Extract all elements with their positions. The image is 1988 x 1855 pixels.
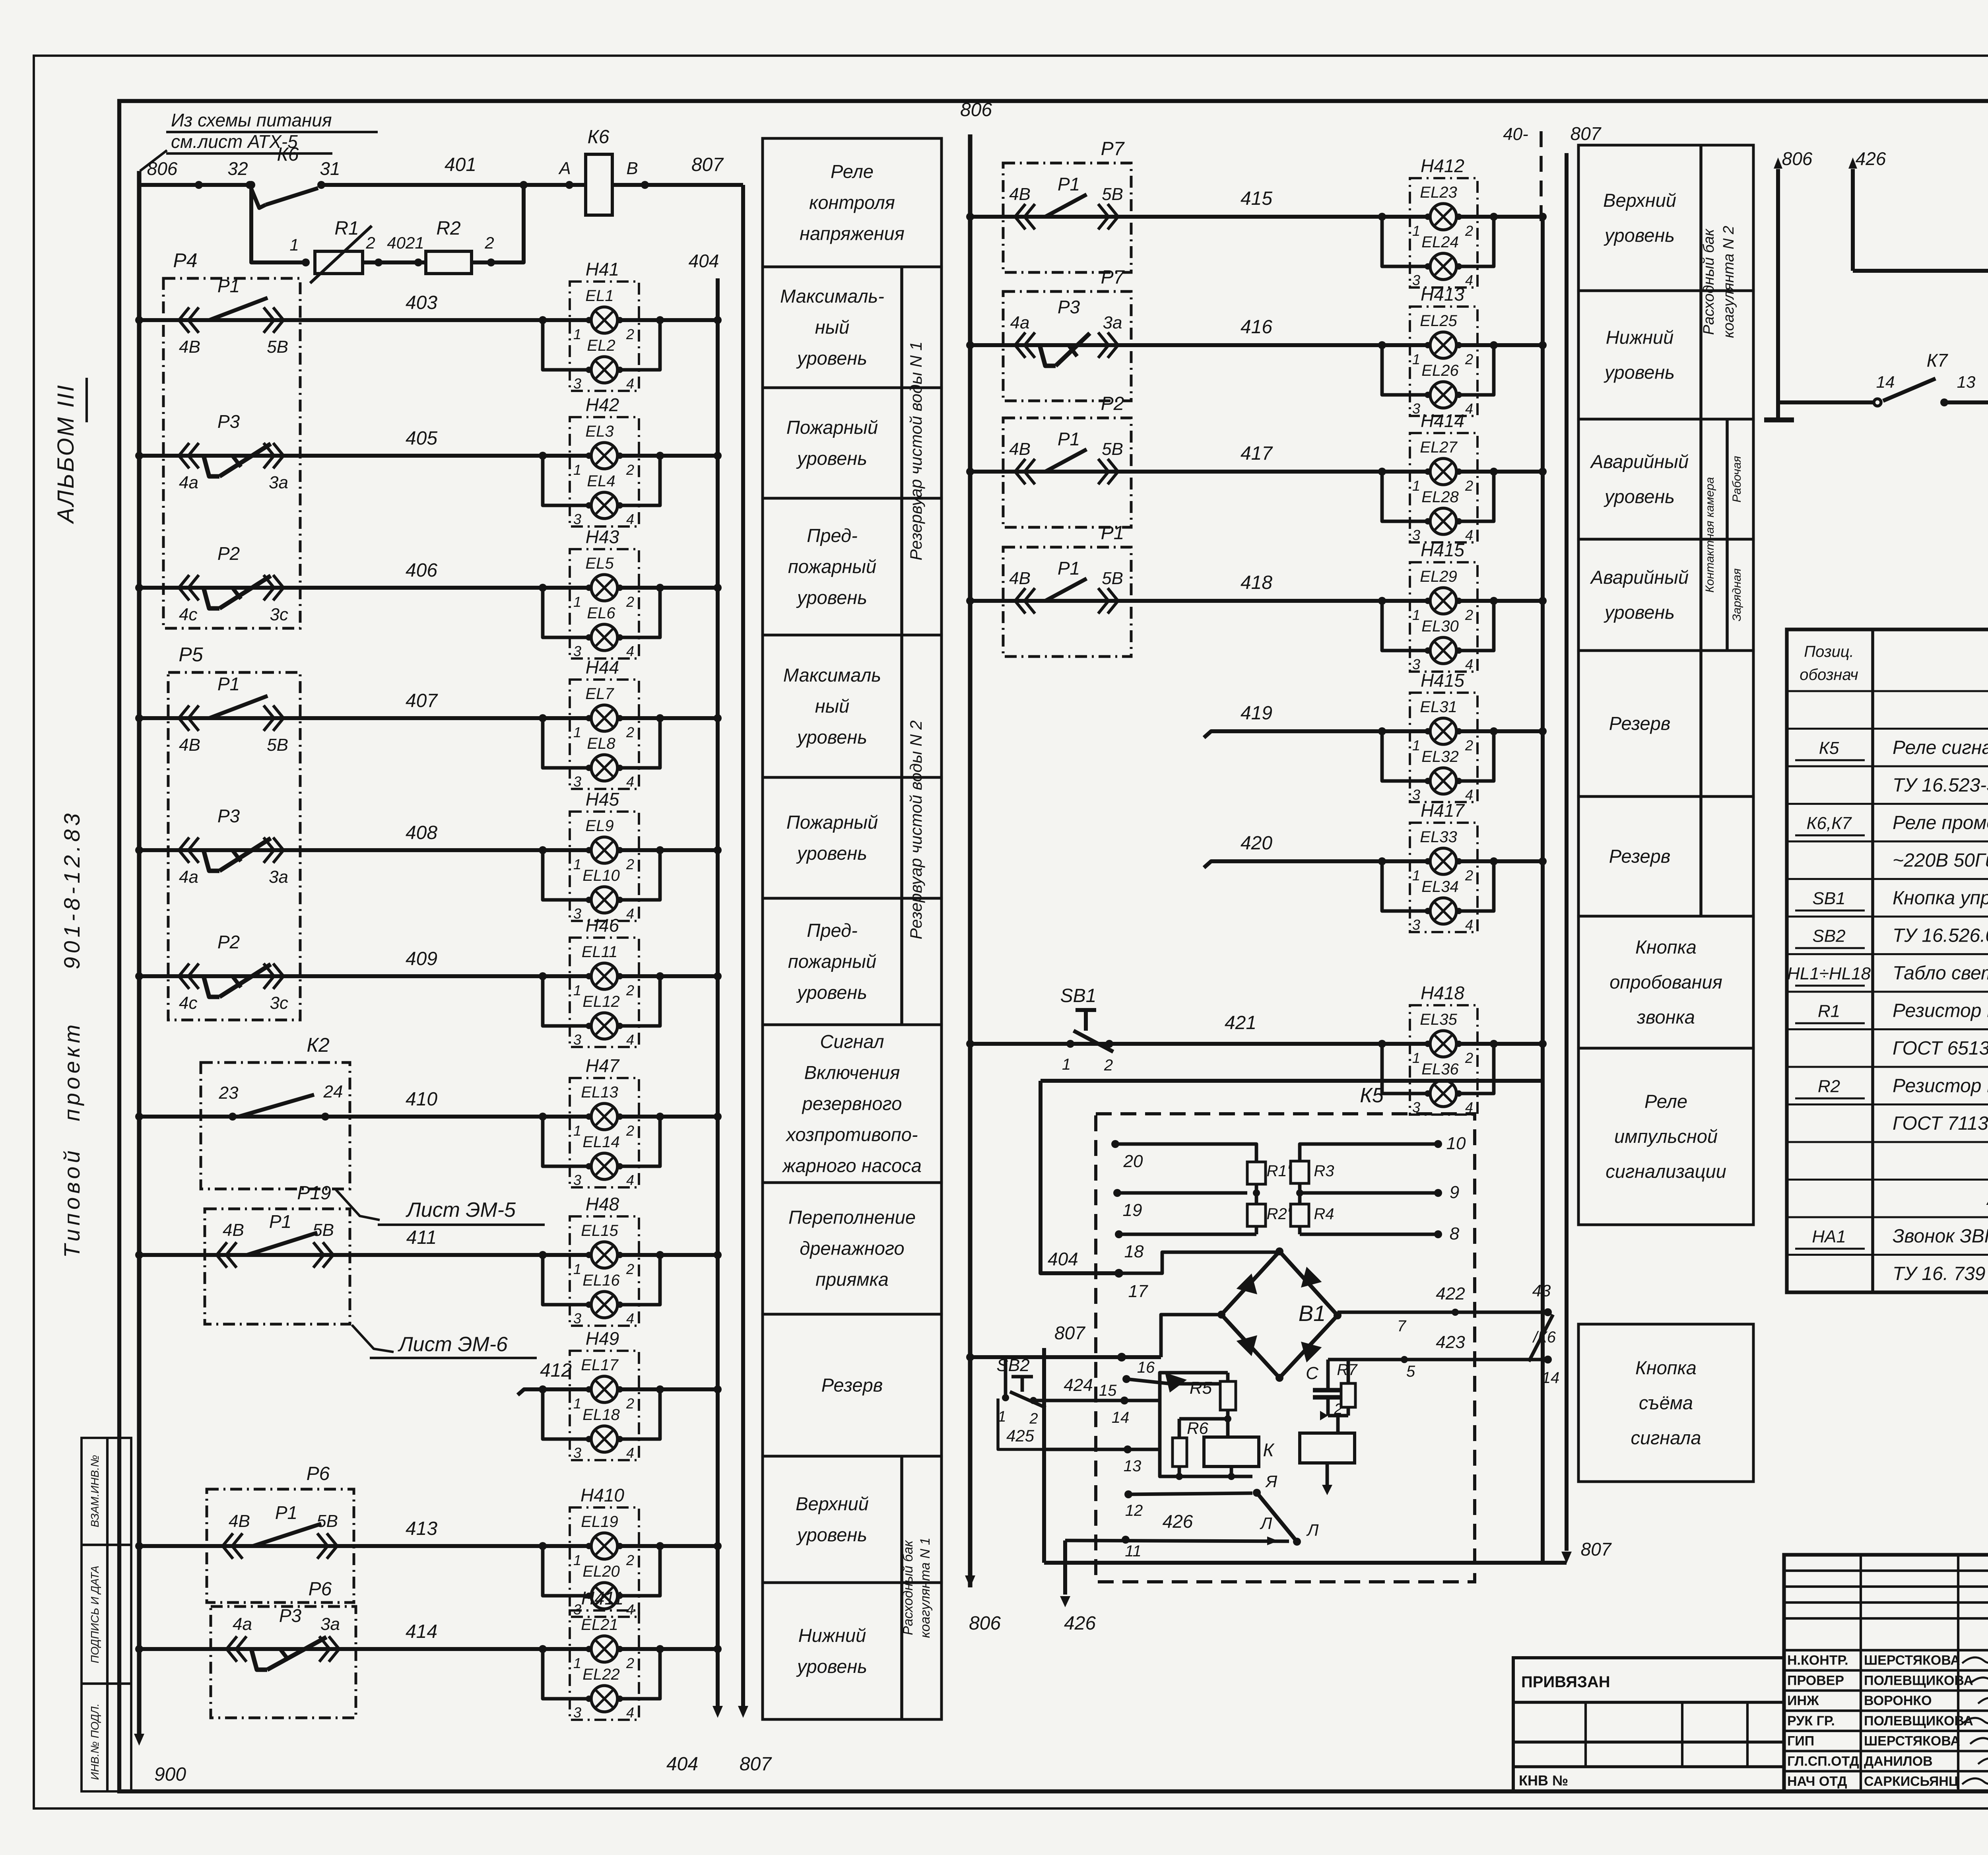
svg-text:приямка: приямка (815, 1269, 889, 1290)
svg-text:ЕL23: ЕL23 (1420, 184, 1457, 201)
wire 401 (139, 183, 250, 187)
lamp unit Н49 (570, 1351, 639, 1460)
lamp ЕL14 (543, 1117, 591, 1166)
contact on wire 407 (179, 705, 189, 731)
svg-text:ЕL7: ЕL7 (585, 685, 614, 703)
svg-text:R4: R4 (1314, 1205, 1334, 1223)
wire to bus 404 (617, 1544, 718, 1548)
lamp ЕL29 (1430, 588, 1456, 614)
contact K6 (250, 185, 266, 208)
svg-text:Пожарный: Пожарный (786, 417, 878, 438)
svg-text:Я: Я (1265, 1472, 1277, 1491)
lamp ЕL2 (543, 320, 591, 370)
svg-text:43: 43 (1532, 1281, 1551, 1300)
svg-text:2: 2 (626, 724, 634, 740)
svg-text:807: 807 (1571, 123, 1602, 144)
svg-text:ЕL35: ЕL35 (1420, 1011, 1457, 1028)
terminal 14 (1120, 1397, 1128, 1404)
wire 419 (1204, 731, 1430, 738)
svg-text:419: 419 (1241, 703, 1272, 724)
wire 423 (1328, 1358, 1548, 1362)
wire to bus 404 (617, 318, 718, 322)
wire 807 into K5 (1042, 1348, 1046, 1563)
svg-text:Н417: Н417 (1421, 800, 1465, 821)
svg-text:ПОДПИСЬ И ДАТА: ПОДПИСЬ И ДАТА (89, 1566, 101, 1663)
svg-text:4В: 4В (223, 1220, 244, 1240)
svg-text:3а: 3а (320, 1614, 340, 1634)
svg-text:Переполнение: Переполнение (788, 1207, 916, 1228)
svg-text:Пред-: Пред- (807, 920, 857, 941)
svg-text:~220В 50Гц. ТУ 16.523.554-78: ~220В 50Гц. ТУ 16.523.554-78 (1893, 850, 1988, 871)
svg-text:Сигнал: Сигнал (820, 1031, 884, 1052)
svg-text:807: 807 (1581, 1539, 1612, 1560)
svg-text:4: 4 (626, 1031, 634, 1048)
wire 426 horizontal (1853, 269, 1988, 273)
contact group Р2 (1003, 418, 1131, 527)
wire terminal 12 (1128, 1493, 1252, 1494)
svg-text:ВОРОНКО: ВОРОНКО (1864, 1693, 1932, 1708)
svg-text:Р1: Р1 (217, 674, 240, 694)
node A (565, 181, 573, 189)
wire terminal 8 (1300, 1233, 1438, 1236)
svg-text:415: 415 (1241, 188, 1272, 209)
svg-text:4: 4 (626, 643, 634, 659)
svg-text:ЕL20: ЕL20 (582, 1563, 619, 1580)
wire to bus 404 (617, 1253, 718, 1257)
svg-text:1: 1 (573, 724, 581, 740)
svg-text:416: 416 (1241, 317, 1272, 338)
svg-text:23: 23 (219, 1083, 239, 1103)
svg-text:2: 2 (626, 326, 634, 342)
svg-text:3: 3 (1412, 787, 1420, 803)
svg-text:Реле: Реле (831, 161, 874, 182)
svg-text:406: 406 (406, 560, 437, 581)
terminal 15 (1122, 1375, 1130, 1383)
svg-text:2: 2 (626, 594, 634, 610)
svg-text:НL1÷НL18: НL1÷НL18 (1787, 964, 1871, 983)
svg-text:40-: 40- (1503, 124, 1528, 144)
lamp ЕL23 (1430, 204, 1456, 230)
svg-text:Зарядная: Зарядная (1730, 568, 1743, 621)
svg-text:САРКИСЬЯНЦ: САРКИСЬЯНЦ (1864, 1774, 1959, 1789)
svg-text:Р7: Р7 (1101, 138, 1125, 159)
rotated label reservuar 2 (900, 635, 903, 1025)
svg-text:1: 1 (1412, 607, 1420, 623)
parts table (1787, 629, 1988, 1292)
resistor R6 (1179, 1417, 1228, 1421)
svg-text:1: 1 (289, 235, 299, 254)
rotated label reservuar 1 (900, 267, 903, 635)
lamp ЕL5 (591, 575, 617, 601)
svg-text:ВЗАМ.ИНВ.№: ВЗАМ.ИНВ.№ (89, 1455, 101, 1527)
svg-text:Р4: Р4 (173, 249, 197, 272)
wire 426 drop (1063, 1540, 1067, 1595)
function box Реле (1578, 1048, 1753, 1225)
node B (641, 181, 649, 189)
title block stamp table (1784, 1555, 1988, 1791)
svg-text:Пред-: Пред- (807, 525, 857, 546)
svg-text:Р7: Р7 (1101, 267, 1125, 288)
svg-text:5В: 5В (1102, 439, 1123, 459)
svg-text:11: 11 (1125, 1542, 1142, 1560)
svg-text:ГИП: ГИП (1787, 1734, 1814, 1749)
svg-text:1: 1 (573, 856, 581, 872)
svg-text:806: 806 (969, 1613, 1001, 1634)
svg-text:Верхний: Верхний (796, 1493, 869, 1514)
lamp ЕL4 (543, 456, 591, 505)
svg-text:Верхний: Верхний (1603, 190, 1676, 211)
rotated labels kamera (1726, 419, 1729, 651)
svg-text:20: 20 (1123, 1152, 1143, 1171)
svg-text:ЕL19: ЕL19 (581, 1513, 618, 1531)
svg-text:R3: R3 (1314, 1162, 1334, 1180)
svg-text:сигнализации: сигнализации (1606, 1161, 1726, 1182)
svg-text:ный: ный (815, 317, 850, 338)
svg-text:4: 4 (1465, 656, 1473, 672)
svg-text:426: 426 (1064, 1613, 1096, 1634)
svg-text:3а: 3а (269, 473, 288, 492)
wire to middle bus (1456, 729, 1543, 733)
function box Пред- (763, 498, 942, 635)
svg-text:5В: 5В (267, 735, 288, 755)
svg-text:4: 4 (1465, 272, 1473, 288)
wire 426 inner (1065, 1540, 1289, 1541)
svg-text:420: 420 (1241, 833, 1272, 854)
svg-text:ЕL10: ЕL10 (582, 867, 619, 884)
svg-text:3с: 3с (270, 605, 288, 624)
svg-text:3: 3 (573, 375, 581, 392)
svg-text:ШЕРСТЯКОВА: ШЕРСТЯКОВА (1864, 1653, 1960, 1668)
resistor R2 (426, 251, 472, 274)
svg-text:Р2: Р2 (1101, 393, 1124, 414)
svg-text:К: К (1263, 1439, 1275, 1460)
svg-text:426: 426 (1163, 1511, 1193, 1532)
svg-text:3а: 3а (269, 867, 288, 887)
wire terminal 19 (1117, 1191, 1247, 1195)
contact on wire 409 (179, 963, 189, 989)
svg-text:4: 4 (626, 1704, 634, 1721)
svg-text:2: 2 (1104, 1057, 1113, 1074)
leader list EM-6 (352, 1325, 394, 1352)
svg-text:ЕL15: ЕL15 (581, 1222, 618, 1239)
wire 411 (139, 1253, 591, 1257)
svg-text:ПОЛЕВЩИКОВА: ПОЛЕВЩИКОВА (1864, 1713, 1973, 1729)
function box Верхний (763, 1456, 942, 1583)
svg-text:К7: К7 (1927, 350, 1948, 371)
contact K6 right (1529, 1315, 1553, 1362)
svg-text:1: 1 (1062, 1056, 1071, 1073)
terminal 12 (1124, 1490, 1132, 1498)
resistor R5 (1220, 1381, 1236, 1410)
svg-text:ИНЖ: ИНЖ (1787, 1693, 1819, 1708)
svg-text:Резервуар чистой воды N 1: Резервуар чистой воды N 1 (907, 342, 925, 561)
svg-text:АЛЬБОМ III: АЛЬБОМ III (53, 384, 79, 524)
lamp unit Н43 (570, 549, 639, 658)
wire 807 top (612, 183, 743, 187)
svg-text:2: 2 (1465, 478, 1473, 494)
wire SB2 to bus (1004, 1357, 1008, 1398)
function box Резерв (763, 1314, 942, 1456)
lamp unit Н47 (570, 1078, 639, 1187)
svg-text:3а: 3а (1103, 313, 1122, 332)
svg-text:425: 425 (1006, 1426, 1035, 1445)
lamp unit Н42 (570, 417, 639, 526)
function box Верхний (1578, 145, 1753, 291)
contact group Р7 (1003, 163, 1131, 272)
lamp ЕL6 (543, 588, 591, 637)
svg-text:уровень: уровень (796, 1524, 867, 1545)
wire terminal 20 (1115, 1144, 1256, 1162)
svg-text:уровень: уровень (796, 843, 867, 864)
wire 424 (1033, 1399, 1124, 1402)
svg-text:ЕL34: ЕL34 (1421, 878, 1458, 895)
svg-text:Р1: Р1 (1058, 429, 1080, 449)
svg-text:3: 3 (573, 773, 581, 790)
wire terminal 15 with diode (1126, 1379, 1171, 1384)
svg-text:ЕL14: ЕL14 (582, 1133, 619, 1151)
lamp ЕL34 (1382, 861, 1430, 911)
svg-text:Р2: Р2 (217, 543, 240, 564)
contact on wire 411 (217, 1242, 227, 1268)
svg-text:5В: 5В (1102, 185, 1123, 204)
svg-text:Резистор ПЭВР-100 2,7кОм ± 10%: Резистор ПЭВР-100 2,7кОм ± 10% (1893, 1000, 1988, 1021)
svg-text:К2: К2 (307, 1034, 329, 1056)
svg-text:2: 2 (626, 982, 634, 998)
svg-text:403: 403 (406, 292, 437, 313)
resistor R2' (1247, 1204, 1266, 1226)
svg-text:Лист ЭМ-6: Лист ЭМ-6 (398, 1333, 508, 1356)
svg-text:ЕL31: ЕL31 (1420, 698, 1457, 716)
svg-text:1: 1 (1412, 737, 1420, 754)
lamp ЕL33 (1430, 848, 1456, 874)
svg-text:5В: 5В (316, 1511, 338, 1531)
svg-text:ПРИВЯЗАН: ПРИВЯЗАН (1521, 1673, 1610, 1691)
terminal 18 (1115, 1230, 1123, 1238)
svg-text:ЕL28: ЕL28 (1421, 488, 1459, 506)
wire to bus 404 (617, 1647, 718, 1651)
svg-text:14: 14 (1876, 373, 1895, 391)
svg-text:1: 1 (1412, 1050, 1420, 1066)
svg-text:Н48: Н48 (586, 1194, 619, 1214)
svg-text:Н410: Н410 (580, 1485, 624, 1505)
svg-text:3: 3 (1412, 917, 1420, 933)
svg-text:Аварийный: Аварийный (1590, 451, 1689, 472)
svg-text:405: 405 (406, 428, 437, 449)
leader wire to bus 806 (140, 150, 167, 171)
svg-text:4В: 4В (1009, 185, 1031, 204)
svg-text:Р5: Р5 (179, 643, 203, 666)
svg-text:15: 15 (1099, 1382, 1117, 1399)
svg-text:уровень: уровень (796, 348, 867, 369)
lamp unit Н415 (1410, 562, 1477, 672)
function box Пред- (763, 898, 942, 1025)
svg-text:ГОСТ 6513-75: ГОСТ 6513-75 (1893, 1038, 1988, 1059)
svg-text:4: 4 (626, 905, 634, 922)
svg-text:7: 7 (1397, 1317, 1407, 1335)
svg-text:Кнопка управления КЕ-011: Кнопка управления КЕ-011 (1893, 888, 1988, 909)
lamp ЕL20 (543, 1546, 591, 1596)
svg-text:Р3: Р3 (1058, 297, 1080, 317)
svg-text:Максималь: Максималь (783, 664, 881, 686)
resistor R1' (1247, 1162, 1266, 1184)
svg-text:5В: 5В (267, 337, 288, 357)
svg-text:Кнопка: Кнопка (1635, 1357, 1697, 1378)
svg-text:13: 13 (1124, 1457, 1142, 1475)
margin stamp boxes (82, 1438, 131, 1791)
wire 406 (139, 586, 591, 590)
svg-text:1: 1 (573, 1655, 581, 1671)
svg-text:414: 414 (406, 1621, 437, 1642)
svg-text:Типовой проект 901-8-12.83: Типовой проект 901-8-12.83 (59, 810, 84, 1258)
svg-text:1: 1 (573, 326, 581, 342)
svg-text:4с: 4с (179, 605, 197, 624)
svg-text:Резервуар чистой воды N 2: Резервуар чистой воды N 2 (907, 721, 925, 940)
lamp ЕL10 (543, 850, 591, 900)
svg-text:жарного насоса: жарного насоса (782, 1155, 922, 1176)
privyazan table (1513, 1658, 1784, 1791)
wire 412 (518, 1389, 591, 1395)
svg-text:уровень: уровень (1604, 602, 1675, 623)
svg-text:4: 4 (1465, 917, 1473, 933)
svg-text:807: 807 (740, 1754, 772, 1775)
svg-text:16: 16 (1137, 1359, 1155, 1376)
svg-text:4: 4 (626, 511, 634, 527)
contact on wire 405 (179, 443, 189, 468)
svg-text:Резерв: Резерв (1609, 713, 1671, 734)
svg-text:426: 426 (1856, 148, 1886, 169)
svg-text:8: 8 (1450, 1224, 1460, 1243)
svg-text:уровень: уровень (1604, 362, 1675, 383)
svg-text:ЕL33: ЕL33 (1420, 828, 1457, 846)
wire 415 (970, 215, 1430, 219)
contact on wire 408 (179, 837, 189, 863)
svg-text:Позиц.: Позиц. (1804, 643, 1854, 660)
lamp ЕL15 (591, 1242, 617, 1268)
svg-text:пожарный: пожарный (788, 951, 876, 972)
terminal 16 (1117, 1353, 1126, 1362)
svg-text:900: 900 (154, 1764, 186, 1785)
function box Резерв (1578, 651, 1753, 796)
rotated label rashodny bak 1 (900, 1456, 903, 1719)
svg-text:3: 3 (573, 1445, 581, 1461)
svg-text:3: 3 (1412, 272, 1420, 288)
svg-text:1: 1 (1412, 351, 1420, 367)
svg-text:4В: 4В (1009, 439, 1031, 459)
svg-text:Н412: Н412 (1421, 155, 1464, 176)
svg-text:4: 4 (1465, 787, 1473, 803)
svg-text:ДАНИЛОВ: ДАНИЛОВ (1864, 1754, 1933, 1769)
function box Пожарный (763, 777, 942, 898)
svg-text:звонка: звонка (1637, 1006, 1695, 1028)
terminal 8 (1434, 1230, 1442, 1238)
svg-text:412: 412 (540, 1360, 572, 1381)
svg-text:Н41: Н41 (586, 259, 619, 280)
svg-text:Р1: Р1 (269, 1211, 291, 1232)
relay unit K5 dashed box (1096, 1114, 1475, 1582)
svg-text:Л: Л (1260, 1514, 1272, 1533)
svg-text:коагулянта N 2: коагулянта N 2 (1720, 226, 1737, 338)
wire 413 (139, 1544, 591, 1548)
svg-text:2: 2 (626, 1123, 634, 1139)
svg-text:Расходный бак: Расходный бак (1701, 228, 1717, 335)
group box P6 lower (211, 1606, 356, 1718)
svg-text:2: 2 (1465, 223, 1473, 239)
svg-text:Резистор ПЭВ-7,5 3,3кОм: Резистор ПЭВ-7,5 3,3кОм (1893, 1075, 1988, 1096)
function box Кнопка (1578, 1324, 1753, 1482)
middle lamp bus (1541, 217, 1545, 1563)
svg-text:1: 1 (573, 1123, 581, 1139)
lamp unit Н48 (570, 1216, 639, 1326)
svg-text:2: 2 (626, 1552, 634, 1568)
svg-text:17: 17 (1128, 1282, 1148, 1301)
svg-text:807: 807 (691, 154, 724, 175)
svg-text:Н42: Н42 (586, 394, 619, 415)
terminal 11 (1122, 1536, 1130, 1544)
svg-text:4В: 4В (229, 1511, 250, 1531)
svg-text:ЕL24: ЕL24 (1421, 233, 1458, 251)
wire 421 (970, 1042, 1430, 1046)
terminal 10 (1434, 1140, 1442, 1148)
wire 408 (139, 848, 591, 852)
svg-text:2: 2 (626, 856, 634, 872)
svg-text:404: 404 (689, 251, 719, 271)
svg-text:ЕL21: ЕL21 (581, 1616, 618, 1634)
svg-text:1: 1 (573, 462, 581, 478)
contact group Р7 (1003, 291, 1131, 401)
terminal 17 (1114, 1269, 1123, 1278)
lamp unit Н413 (1410, 307, 1477, 416)
svg-text:сигнала: сигнала (1631, 1427, 1701, 1448)
node 2 (375, 258, 382, 266)
svg-text:НАЧ ОТД: НАЧ ОТД (1787, 1774, 1847, 1789)
svg-text:/К6: /К6 (1532, 1329, 1556, 1346)
svg-text:Р2: Р2 (217, 932, 240, 952)
svg-text:Р6: Р6 (309, 1579, 332, 1600)
svg-text:806: 806 (147, 158, 178, 179)
svg-text:ЕL17: ЕL17 (581, 1356, 619, 1374)
relay coil lower (1336, 1416, 1340, 1433)
svg-text:1: 1 (1412, 223, 1420, 239)
svg-text:807: 807 (1054, 1323, 1085, 1343)
wire to bus 404 (617, 848, 718, 852)
svg-text:коагулянта N 1: коагулянта N 1 (918, 1538, 933, 1638)
lamp ЕL31 (1430, 718, 1456, 744)
wire to R1 (251, 185, 306, 262)
svg-text:5В: 5В (1102, 569, 1123, 588)
lamp unit Н411 (570, 1610, 639, 1720)
node 2 right (487, 258, 495, 266)
wire to bus 404 (617, 1387, 718, 1391)
svg-text:Кнопка: Кнопка (1635, 936, 1697, 958)
svg-text:806: 806 (960, 99, 992, 120)
lamp ЕL12 (543, 976, 591, 1026)
svg-text:31: 31 (320, 158, 340, 179)
svg-text:ПОЛЕВЩИКОВА: ПОЛЕВЩИКОВА (1864, 1673, 1973, 1688)
svg-text:Табло световое ТСБ ТУ16 535 42: Табло световое ТСБ ТУ16 535 424-70 (1893, 963, 1988, 984)
function box Резерв (1578, 796, 1753, 916)
svg-text:R6: R6 (1187, 1419, 1208, 1437)
svg-text:4В: 4В (1009, 569, 1031, 588)
svg-text:1: 1 (573, 982, 581, 998)
function box Аварийный (1578, 419, 1753, 539)
svg-text:ГОСТ 7113-77: ГОСТ 7113-77 (1893, 1113, 1988, 1134)
wire 410 (139, 1115, 591, 1119)
resistor branch node (247, 181, 255, 189)
svg-text:дренажного: дренажного (800, 1238, 904, 1259)
lamp unit Н44 (570, 680, 639, 789)
lamp ЕL8 (543, 718, 591, 768)
svg-text:Л: Л (1306, 1521, 1319, 1539)
